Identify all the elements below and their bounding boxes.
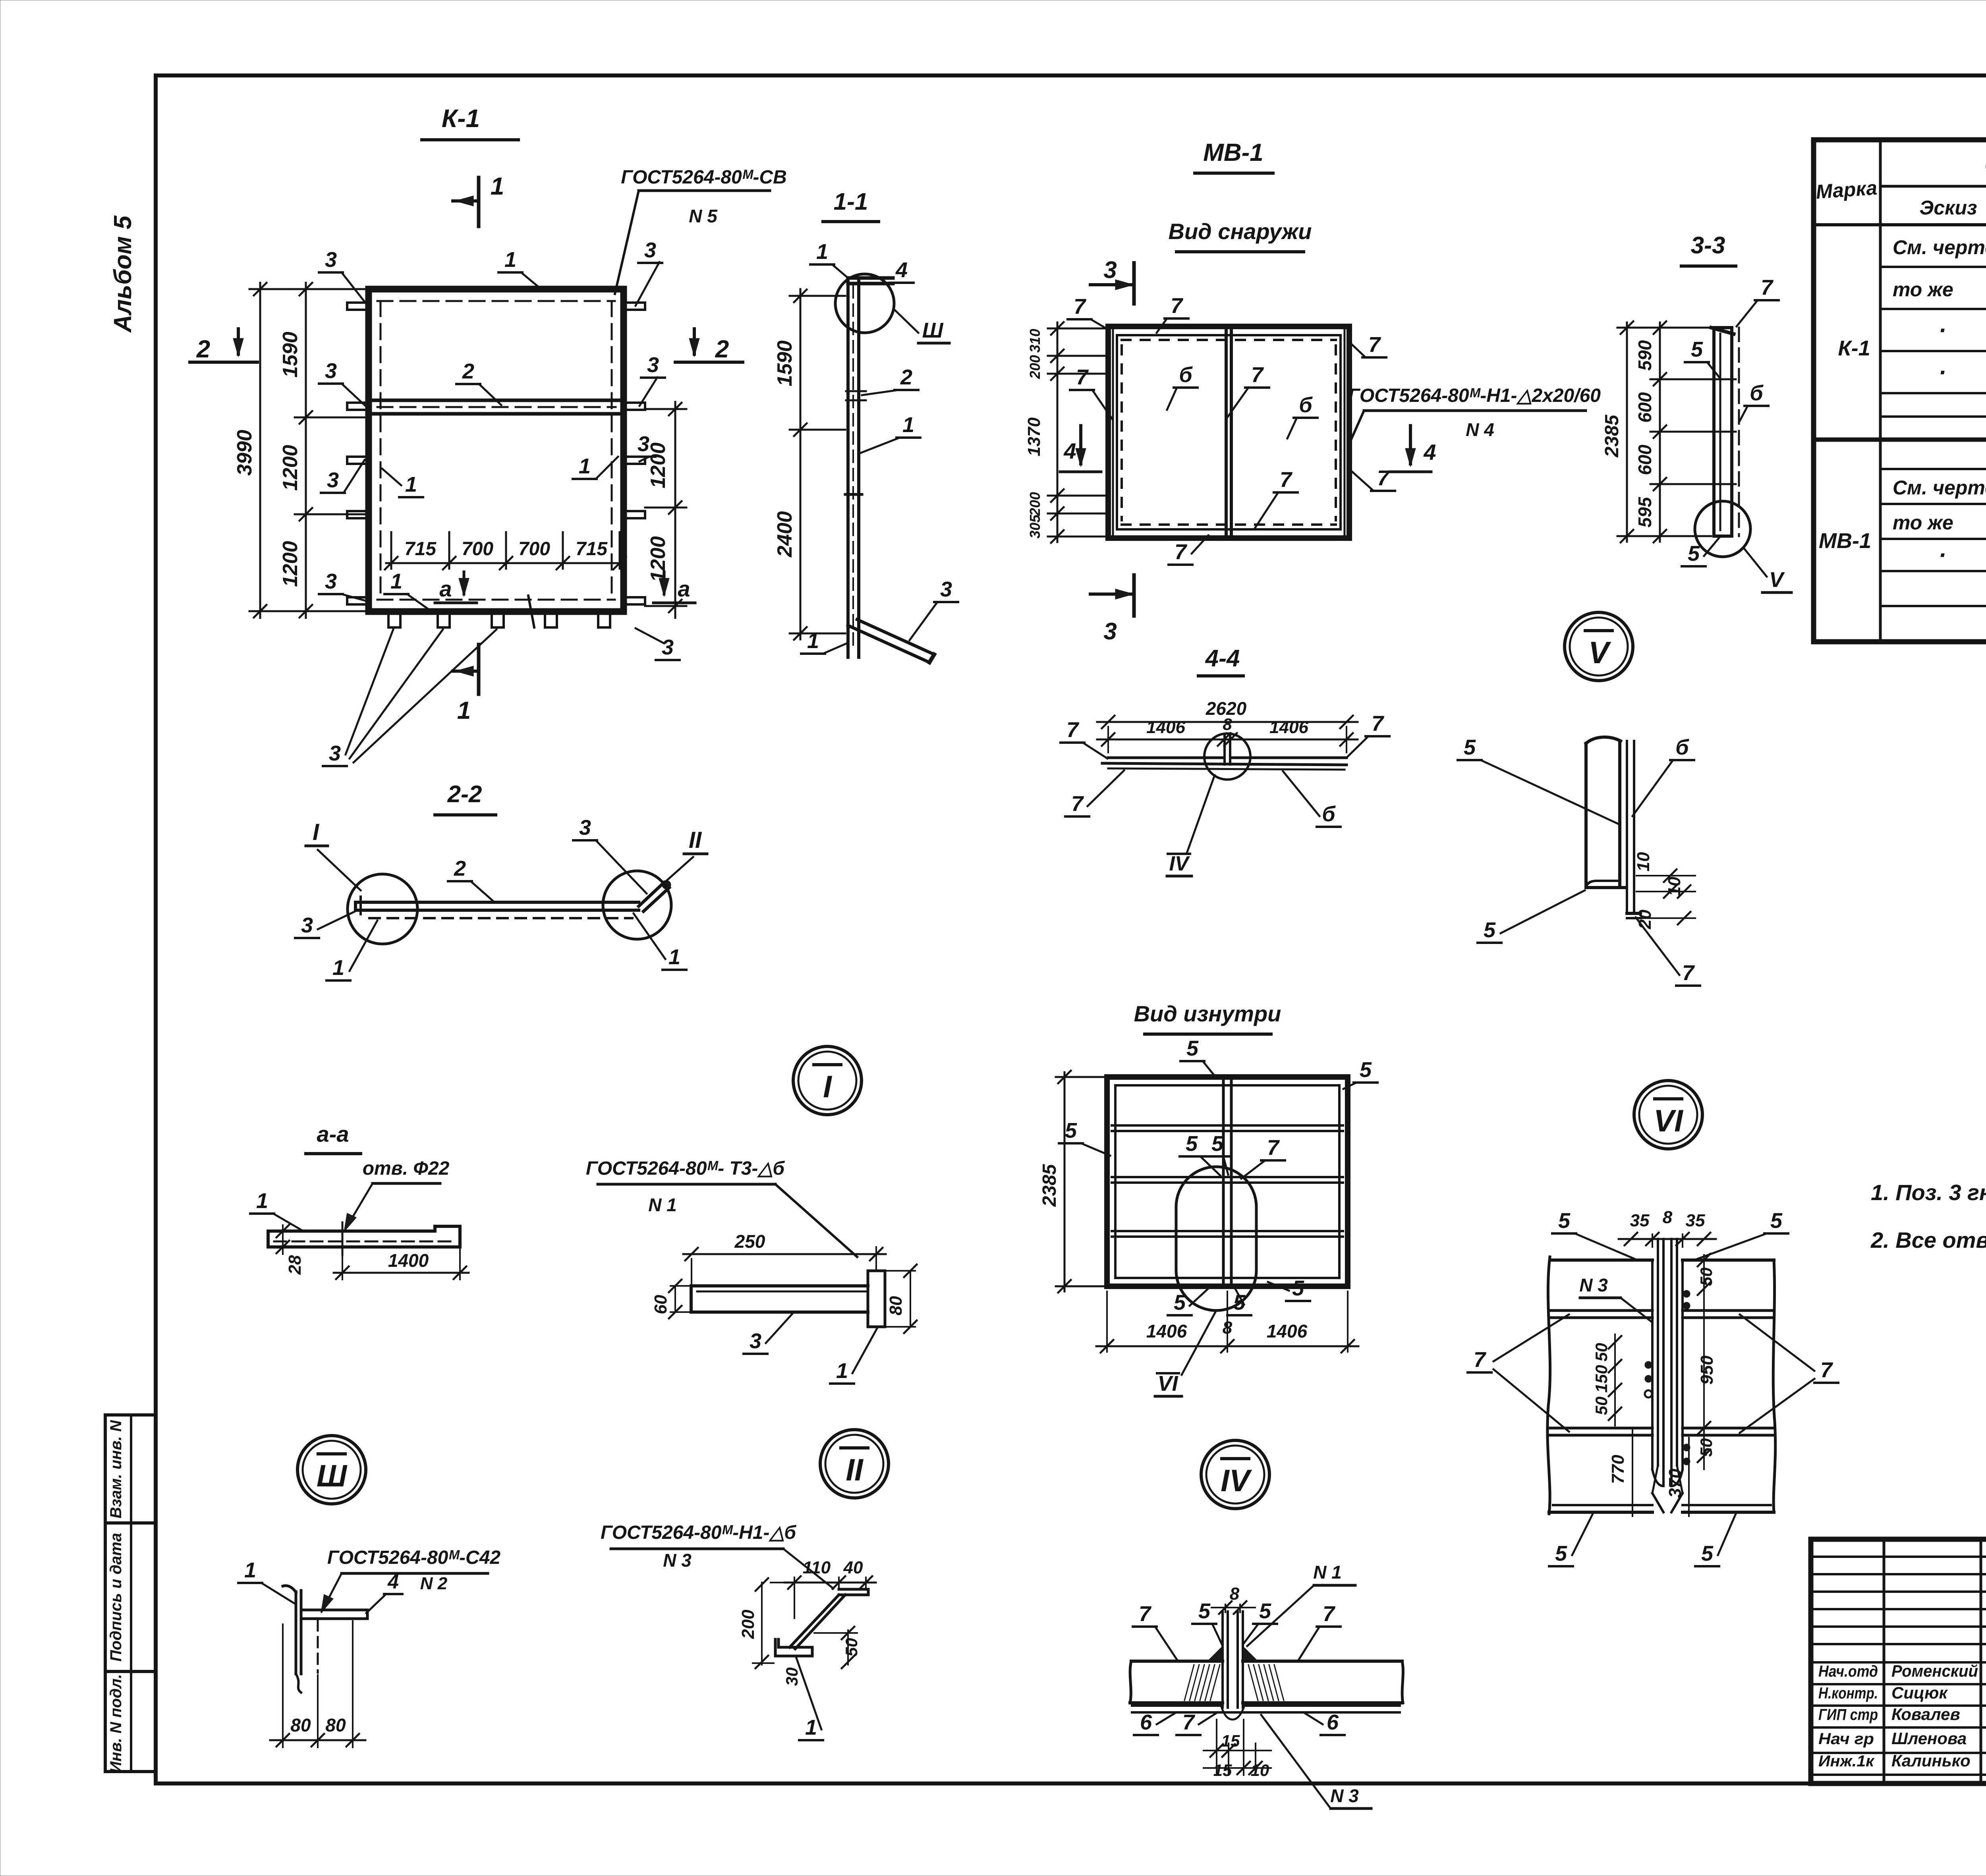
svg-text:МВ-1: МВ-1: [1203, 139, 1263, 166]
detail Т3 part: [691, 1271, 885, 1327]
detail II part bracket: [775, 1589, 868, 1656]
detail IV bottom dimensions 15 15 10: [1204, 1720, 1271, 1779]
svg-text:50: 50: [1697, 1438, 1716, 1457]
svg-text:Сицюк: Сицюк: [1891, 1683, 1948, 1702]
view МВ-1 panel outline: [1108, 326, 1349, 538]
svg-text:5: 5: [1558, 1209, 1571, 1233]
svg-text:Ш: Ш: [922, 318, 944, 342]
detail III poz label 1: [238, 1558, 295, 1604]
detail IV label N1: [1247, 1562, 1355, 1646]
section 4-4 title: [1198, 645, 1243, 676]
svg-text:V: V: [1769, 568, 1785, 592]
svg-text:1. Поз. 3 гнуть по месту в за: 1. Поз. 3 гнуть по месту в зависимости о…: [1871, 1180, 1986, 1205]
svg-text:1: 1: [457, 697, 471, 724]
detail III dimensions 80 80: [270, 1621, 365, 1747]
svg-text:200: 200: [1027, 355, 1043, 379]
svg-text:1: 1: [816, 240, 828, 264]
view K-1 section mark 1 top: [453, 173, 504, 226]
svg-text:Марка: Марка: [1815, 177, 1878, 203]
svg-text:5: 5: [1464, 735, 1476, 759]
svg-text:б: б: [1750, 381, 1764, 405]
detail II dimensions 110 40: [784, 1558, 876, 1618]
svg-text:2-2: 2-2: [447, 781, 482, 807]
section 3-3 title: [1681, 232, 1736, 266]
svg-text:3: 3: [647, 353, 659, 377]
svg-text:2: 2: [462, 359, 474, 383]
section 1-1 left dimension chain 1590-2400: [773, 289, 845, 640]
detail IV centre joint plates: [1223, 1612, 1243, 1708]
svg-text:5: 5: [1770, 1209, 1783, 1233]
detail Т3 dimension 250: [683, 1231, 886, 1283]
view МВ-1 weld stitch marks: [1122, 340, 1336, 525]
svg-text:200: 200: [1027, 492, 1043, 516]
svg-text:7: 7: [1267, 1136, 1280, 1160]
svg-text:4: 4: [387, 1571, 399, 1593]
view K-1 right dimension chain 1200-1200: [645, 402, 686, 618]
view K-1 section mark a left: [435, 572, 477, 603]
svg-text:250: 250: [734, 1231, 765, 1252]
view МВ-1 subtitle Вид снаружи: [1169, 219, 1312, 252]
detail VI horizontal rails: [1550, 1310, 1774, 1435]
svg-text:5: 5: [1186, 1132, 1198, 1156]
section 1-1 poz labels: [810, 240, 920, 453]
detail VI lower dimensions 770 370: [1608, 1430, 1689, 1516]
svg-text:28: 28: [285, 1255, 305, 1275]
svg-text:1590: 1590: [279, 332, 302, 378]
svg-text:а-а: а-а: [317, 1121, 349, 1146]
svg-text:б: б: [1675, 735, 1689, 759]
detail а-а hole note отв Ф22: [339, 1158, 449, 1234]
svg-text:3: 3: [940, 577, 952, 601]
view 2-2 right bent tab: [639, 880, 671, 911]
svg-text:1200: 1200: [279, 445, 302, 491]
svg-text:·: ·: [1938, 317, 1946, 344]
view МВ-1 left dimension chain 310-200-1370-200-305: [1024, 322, 1106, 543]
svg-text:5: 5: [1198, 1599, 1211, 1623]
detail Т3 dimension 80: [886, 1264, 917, 1333]
svg-text:1: 1: [668, 945, 680, 969]
view МВ-1 centre divider: [1226, 326, 1231, 538]
svg-text:5: 5: [1484, 918, 1496, 942]
svg-text:4: 4: [895, 258, 908, 282]
detail designation circle IV: [1201, 1440, 1269, 1509]
svg-text:то же: то же: [1893, 511, 1953, 534]
section 1-1 label III: [918, 318, 949, 343]
svg-text:1406: 1406: [1269, 718, 1308, 737]
svg-text:1: 1: [256, 1189, 268, 1213]
detail IV label N3: [1261, 1715, 1371, 1808]
view K-1 poz labels 1: [382, 248, 618, 610]
view K-1 weld note ГОСТ5264-80-СВ N5: [615, 167, 787, 294]
svg-text:1: 1: [390, 569, 402, 593]
detail VI top dimension 35-8-35: [1619, 1208, 1716, 1247]
view 2-2 detail circle II callout: [603, 871, 671, 939]
svg-text:7: 7: [1323, 1602, 1336, 1626]
svg-text:5: 5: [1211, 1132, 1224, 1156]
svg-text:N 2: N 2: [420, 1574, 448, 1593]
section 1-1 bottom foot: [848, 620, 934, 662]
detail II poz label 1: [796, 1658, 823, 1740]
svg-text:3-3: 3-3: [1691, 232, 1725, 259]
view Вид изнутри left dimension 2385: [1039, 1071, 1104, 1293]
view K-1 section mark a right: [653, 572, 695, 603]
view МВ-1 poz labels 7: [1068, 294, 1395, 565]
note 2 text: [1870, 1228, 1986, 1253]
svg-text:700: 700: [462, 538, 493, 560]
view МВ-1 title: [1195, 139, 1273, 173]
detail designation circle VI: [1634, 1081, 1702, 1149]
detail VI poz labels 7 with fan leaders: [1468, 1314, 1838, 1433]
svg-text:1200: 1200: [279, 541, 302, 587]
svg-text:7: 7: [1071, 792, 1084, 816]
svg-text:7: 7: [1182, 1710, 1196, 1734]
detail VI torn panel: [1547, 1257, 1775, 1514]
view 2-2 title: [435, 781, 496, 815]
svg-text:N 3: N 3: [663, 1550, 692, 1571]
svg-text:15: 15: [1213, 1761, 1232, 1779]
view МВ-1 section mark 4 left: [1060, 426, 1101, 472]
svg-text:3: 3: [325, 359, 337, 383]
svg-text:II: II: [846, 1452, 864, 1487]
view МВ-1 section mark 3 bottom: [1090, 575, 1134, 645]
detail VI centre joint: [1652, 1239, 1683, 1512]
svg-text:Эскиз: Эскиз: [1919, 197, 1977, 219]
svg-text:5: 5: [1688, 542, 1700, 566]
svg-text:80: 80: [886, 1296, 906, 1315]
svg-text:3: 3: [662, 635, 674, 659]
section 4-4 label IV: [1167, 852, 1192, 876]
svg-text:3990: 3990: [233, 430, 256, 476]
svg-text:ГОСТ5264-80ᴹ- Т3-△б: ГОСТ5264-80ᴹ- Т3-△б: [586, 1158, 785, 1179]
svg-text:7: 7: [1171, 294, 1184, 318]
svg-text:Инж.1к: Инж.1к: [1818, 1752, 1875, 1770]
svg-text:1370: 1370: [1024, 417, 1044, 456]
svg-text:3: 3: [750, 1329, 761, 1353]
svg-text:5: 5: [1360, 1058, 1372, 1082]
svg-text:См. чертеж: См. чертеж: [1893, 477, 1986, 499]
view Вид изнутри poz label 7: [1241, 1136, 1285, 1179]
svg-text:1406: 1406: [1146, 718, 1185, 737]
section 4-4 plates: [1102, 735, 1347, 770]
svg-text:2400: 2400: [773, 511, 796, 558]
section 1-1 member: [845, 278, 893, 657]
svg-text:1200: 1200: [647, 536, 670, 582]
svg-text:4: 4: [1063, 438, 1076, 463]
svg-text:5: 5: [1174, 1291, 1186, 1314]
svg-text:5: 5: [1259, 1599, 1271, 1623]
svg-text:1: 1: [504, 248, 516, 272]
svg-text:ГОСТ5264-80ᴹ-С42: ГОСТ5264-80ᴹ-С42: [327, 1547, 501, 1568]
svg-text:10: 10: [1634, 852, 1653, 871]
svg-text:II: II: [689, 827, 702, 853]
svg-text:N 5: N 5: [689, 206, 718, 226]
view Вид изнутри centre divider: [1223, 1077, 1231, 1286]
svg-text:МВ-1: МВ-1: [1819, 529, 1871, 553]
svg-text:1: 1: [836, 1359, 848, 1383]
svg-text:1: 1: [244, 1558, 256, 1582]
svg-text:5: 5: [1065, 1119, 1077, 1143]
svg-text:К-1: К-1: [1838, 336, 1870, 360]
svg-text:1: 1: [491, 173, 504, 200]
svg-text:10: 10: [1251, 1761, 1269, 1779]
svg-text:5: 5: [1701, 1542, 1714, 1565]
svg-text:40: 40: [843, 1558, 863, 1577]
svg-text:7: 7: [1074, 295, 1087, 318]
svg-text:Инв. N подл.: Инв. N подл.: [107, 1674, 125, 1773]
detail VI poz labels 5: [1549, 1209, 1788, 1566]
svg-text:1406: 1406: [1267, 1321, 1308, 1341]
svg-text:2: 2: [900, 365, 912, 389]
svg-text:2385: 2385: [1039, 1164, 1060, 1207]
detail II dimensions 200 50 30: [738, 1578, 861, 1686]
svg-text:600: 600: [1634, 444, 1655, 475]
svg-text:то же: то же: [1893, 278, 1953, 301]
svg-text:7: 7: [1377, 466, 1390, 490]
svg-text:3: 3: [325, 569, 337, 593]
view K-1 total dimension 3990: [233, 283, 295, 618]
svg-text:4: 4: [1423, 440, 1436, 465]
svg-text:6: 6: [1140, 1710, 1152, 1734]
section 3-3 label V: [1762, 568, 1791, 593]
view K-1 right tabs poz3: [624, 303, 645, 604]
svg-text:I: I: [823, 1069, 832, 1104]
detail VI weld dots: [1645, 1290, 1690, 1465]
svg-text:7: 7: [1066, 718, 1080, 742]
view 2-2 poz labels: [295, 816, 686, 980]
section 3-3 total dimension 2385: [1602, 321, 1650, 542]
svg-text:60: 60: [651, 1295, 670, 1314]
svg-text:600: 600: [1634, 392, 1655, 423]
svg-text:IV: IV: [1221, 1463, 1252, 1498]
svg-text:50: 50: [1592, 1343, 1611, 1362]
svg-text:N 3: N 3: [1330, 1785, 1359, 1806]
view Вид изнутри poz labels 5: [1059, 1036, 1377, 1315]
svg-text:80: 80: [290, 1715, 311, 1735]
table header labels: [1815, 151, 1986, 224]
view 2-2 detail circle I callout: [348, 874, 417, 944]
view K-1 poz labels 3 left side: [319, 248, 368, 600]
svg-text:б: б: [1179, 363, 1193, 387]
svg-text:7: 7: [1076, 365, 1089, 389]
svg-text:N 1: N 1: [648, 1195, 677, 1215]
view Вид изнутри horizontal rails: [1112, 1125, 1343, 1237]
svg-text:5: 5: [1691, 338, 1703, 361]
svg-text:310: 310: [1027, 329, 1043, 353]
svg-text:8: 8: [1223, 715, 1232, 733]
svg-text:ГИП стр: ГИП стр: [1818, 1706, 1878, 1724]
svg-text:715: 715: [404, 538, 437, 560]
detail Т3 dimension 60: [651, 1280, 689, 1318]
svg-text:2385: 2385: [1602, 414, 1623, 457]
svg-text:3: 3: [301, 913, 313, 937]
view 2-2 member: [355, 897, 639, 918]
svg-text:I: I: [313, 819, 320, 845]
svg-text:См. чертеж: См. чертеж: [1893, 236, 1986, 259]
svg-text:1200: 1200: [647, 442, 670, 488]
svg-text:5: 5: [1186, 1036, 1199, 1060]
detail Т3 poz labels: [744, 1314, 877, 1384]
detail Т3 weld note: [586, 1158, 857, 1257]
svg-text:7: 7: [1280, 468, 1293, 492]
svg-text:б: б: [1322, 802, 1336, 826]
svg-text:VI: VI: [1157, 1372, 1178, 1395]
svg-text:Подпись и дата: Подпись и дата: [107, 1533, 125, 1662]
svg-text:б: б: [1299, 393, 1313, 417]
svg-text:50: 50: [1592, 1397, 1611, 1415]
section 3-3 dimension chain 590-600-600-595: [1634, 321, 1711, 542]
svg-text:1406: 1406: [1146, 1321, 1187, 1341]
svg-text:7: 7: [1139, 1602, 1152, 1626]
table rows MB-1 group data: [1819, 477, 1986, 568]
view Вид изнутри title: [1134, 1001, 1281, 1034]
section 4-4 dimension 1406-8-1406: [1097, 715, 1358, 746]
svg-text:35: 35: [1686, 1211, 1705, 1230]
svg-text:5: 5: [1292, 1276, 1304, 1300]
view K-1 section mark 2 right: [675, 329, 743, 363]
view МВ-1 section mark 3 top: [1090, 257, 1134, 304]
detail а-а title: [306, 1121, 361, 1154]
svg-text:8: 8: [1223, 1318, 1233, 1338]
section 3-3 detail circle V callout: [1695, 501, 1767, 577]
detail IV weld hatch: [1184, 1646, 1284, 1700]
view K-1 poz labels 3 right side: [632, 238, 680, 660]
view МВ-1 poz labels 6: [1167, 363, 1318, 438]
view K-1 left dimension chain 1590-1200-1200: [279, 283, 369, 618]
svg-text:590: 590: [1634, 340, 1655, 371]
svg-text:ГОСТ5264-80ᴹ-Н1-△б: ГОСТ5264-80ᴹ-Н1-△б: [601, 1522, 796, 1543]
svg-text:а: а: [439, 576, 452, 601]
svg-text:Ш: Ш: [317, 1458, 348, 1493]
svg-text:а: а: [678, 576, 690, 601]
svg-text:3: 3: [329, 741, 341, 765]
svg-text:7: 7: [1820, 1358, 1833, 1382]
section 3-3 member: [1710, 328, 1739, 536]
svg-text:715: 715: [576, 538, 608, 560]
view K-1 bottom dimension chain 715-700-700-715: [385, 532, 626, 569]
svg-text:ГОСТ5264-80ᴹ-СВ: ГОСТ5264-80ᴹ-СВ: [621, 167, 786, 188]
svg-text:305: 305: [1027, 514, 1043, 538]
svg-text:отв. Ф22: отв. Ф22: [363, 1158, 450, 1179]
table rows K-1 group data: [1838, 236, 1986, 386]
svg-text:Роменский: Роменский: [1891, 1662, 1978, 1680]
svg-text:Нач гр: Нач гр: [1818, 1730, 1874, 1748]
svg-text:3: 3: [1103, 618, 1117, 645]
svg-text:1590: 1590: [773, 340, 796, 386]
detail а-а plate: [268, 1222, 460, 1255]
svg-text:Взам. инв. N: Взам. инв. N: [107, 1420, 125, 1518]
svg-text:2: 2: [196, 336, 210, 363]
detail VI label N3: [1579, 1275, 1652, 1322]
detail II weld note Н1: [601, 1522, 833, 1588]
detail designation circle III: [298, 1436, 366, 1504]
svg-text:К-1: К-1: [442, 104, 480, 133]
detail V poz labels: [1458, 735, 1700, 986]
detail а-а poz label 1: [250, 1189, 302, 1230]
svg-text:5: 5: [1555, 1542, 1567, 1565]
svg-text:150: 150: [1592, 1365, 1611, 1393]
svg-text:3: 3: [1103, 257, 1117, 283]
svg-text:35: 35: [1630, 1211, 1650, 1230]
section 1-1 title: [823, 188, 879, 222]
section 4-4 dimension 2620: [1097, 698, 1358, 753]
view 2-2 label I: [306, 819, 361, 890]
section 1-1 detail circle III callout: [835, 274, 918, 333]
svg-text:N 4: N 4: [1466, 419, 1494, 440]
svg-text:N 3: N 3: [1579, 1275, 1608, 1295]
detail IV poz labels: [1133, 1599, 1345, 1735]
view K-1 bottom fan leaders poz 3: [323, 629, 496, 766]
svg-text:7: 7: [1175, 540, 1188, 564]
view K-1 poz label 2: [456, 359, 501, 405]
detail V channel piece: [1586, 737, 1640, 918]
view K-1 bottom feet poz3: [388, 596, 610, 627]
detail IV dimension 8 top: [1211, 1584, 1255, 1614]
svg-text:7: 7: [1474, 1348, 1487, 1372]
svg-text:3: 3: [644, 238, 656, 262]
table Ведомость элементов grid: [1814, 140, 1986, 642]
view K-1 left tabs poz3: [347, 303, 369, 604]
svg-text:·: ·: [1938, 542, 1946, 568]
svg-text:3: 3: [327, 468, 339, 492]
svg-text:50: 50: [842, 1638, 861, 1657]
svg-text:1400: 1400: [388, 1250, 429, 1271]
view K-1 section mark 1 bottom: [453, 645, 479, 724]
title block main grid: [1811, 1539, 1986, 1783]
svg-text:1: 1: [332, 956, 344, 980]
view K-1 section mark 2 left: [190, 329, 257, 363]
view K-1 frame outline: [369, 289, 624, 612]
svg-text:950: 950: [1697, 1355, 1717, 1385]
detail а-а dimension 1400: [334, 1249, 469, 1280]
detail IV plates: [1130, 1661, 1403, 1703]
svg-text:Ковалев: Ковалев: [1891, 1705, 1960, 1724]
svg-text:Вид изнутри: Вид изнутри: [1134, 1001, 1281, 1026]
svg-text:770: 770: [1608, 1455, 1628, 1484]
svg-text:3: 3: [638, 432, 649, 456]
section 1-1 bottom poz labels: [801, 577, 958, 654]
view МВ-1 section mark 4 right: [1390, 426, 1436, 472]
note 1 text: [1871, 1180, 1986, 1205]
svg-text:6: 6: [1327, 1710, 1339, 1734]
left margin vertical label Альбом 5: [109, 215, 137, 333]
detail V dimensions 10 10 20: [1634, 852, 1695, 929]
view Вид изнутри panel outline: [1107, 1077, 1348, 1286]
svg-text:2. Все отверстия Ф 11мм, кроме: 2. Все отверстия Ф 11мм, кроме оговоренн…: [1870, 1228, 1986, 1253]
view Вид изнутри label VI: [1155, 1372, 1182, 1396]
detail designation circle V: [1565, 612, 1633, 681]
view Вид изнутри bottom dimension 1406-8-1406: [1096, 1291, 1358, 1353]
svg-text:3: 3: [579, 816, 591, 840]
svg-text:7: 7: [1368, 333, 1381, 357]
svg-text:7: 7: [1682, 961, 1695, 985]
svg-text:Вид снаружи: Вид снаружи: [1169, 219, 1312, 244]
svg-text:7: 7: [1251, 363, 1264, 387]
svg-text:VI: VI: [1654, 1103, 1683, 1138]
section 4-4 detail circle IV callout: [1187, 733, 1250, 853]
svg-text:V: V: [1588, 635, 1611, 670]
svg-text:15: 15: [1221, 1731, 1240, 1750]
svg-text:1: 1: [579, 454, 591, 478]
svg-text:Нач.отд: Нач.отд: [1818, 1663, 1878, 1680]
svg-text:4-4: 4-4: [1205, 645, 1240, 672]
svg-text:200: 200: [738, 1610, 758, 1639]
svg-text:IV: IV: [1169, 852, 1190, 875]
svg-text:Шленова: Шленова: [1891, 1729, 1967, 1748]
view K-1 middle channel member poz2: [371, 400, 621, 414]
section 3-3 poz labels: [1682, 276, 1779, 566]
svg-text:30: 30: [782, 1668, 801, 1686]
detail designation circle I: [793, 1046, 862, 1115]
